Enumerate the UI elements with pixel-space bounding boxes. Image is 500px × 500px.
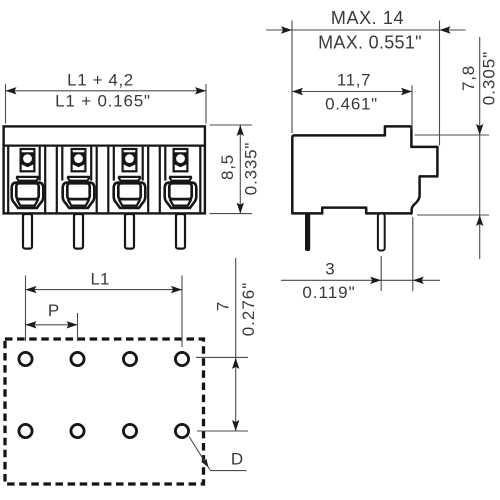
svg-text:0.461": 0.461" <box>325 95 378 114</box>
svg-text:0.305": 0.305" <box>480 51 499 106</box>
svg-text:P: P <box>48 301 59 320</box>
svg-text:0.276": 0.276" <box>239 282 258 337</box>
svg-text:L1 + 0.165": L1 + 0.165" <box>55 92 151 111</box>
svg-text:0.335": 0.335" <box>242 142 261 195</box>
svg-text:7,8: 7,8 <box>459 65 478 91</box>
svg-text:8,5: 8,5 <box>218 154 237 180</box>
svg-text:MAX. 0.551": MAX. 0.551" <box>318 33 422 53</box>
svg-text:3: 3 <box>325 260 334 279</box>
svg-text:MAX. 14: MAX. 14 <box>331 8 404 28</box>
svg-text:11,7: 11,7 <box>337 71 371 90</box>
svg-text:D: D <box>231 450 243 469</box>
svg-text:0.119": 0.119" <box>302 283 355 302</box>
svg-text:L1 + 4,2: L1 + 4,2 <box>67 71 134 90</box>
svg-text:7: 7 <box>214 302 233 311</box>
svg-text:L1: L1 <box>91 270 110 289</box>
